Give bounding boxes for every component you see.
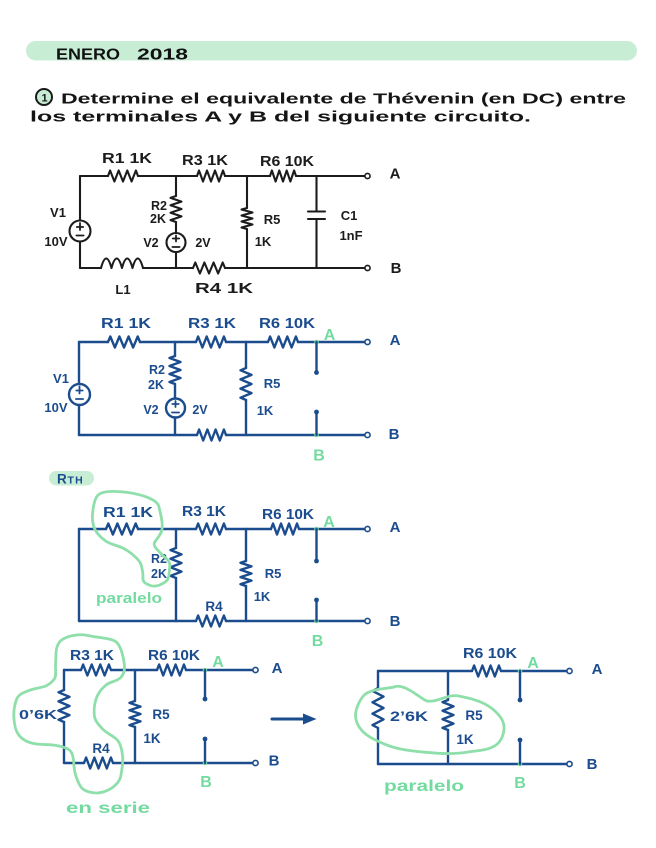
resistor R3 (c3) [196,524,226,535]
label R2 (c2) [149,363,165,377]
terminal A (c4) [253,667,258,672]
svg-text:2’6K: 2’6K [390,709,428,724]
svg-text:B: B [391,260,402,277]
capacitor C1 branch wire upper [315,176,317,211]
label L1 [115,282,130,297]
Rth label [57,472,84,487]
svg-text:2018: 2018 [137,47,188,64]
green label A (c4) [212,654,224,671]
svg-text:R1 1K: R1 1K [103,505,154,521]
terminal A (c3) [365,526,370,531]
svg-text:B: B [390,613,401,630]
svg-text:1K: 1K [257,403,274,418]
wire R4 to terminal B (c2) [226,434,365,436]
question text line 2 [30,110,531,126]
terminal B [365,265,370,270]
wire R4 to terminal B (c3) [226,620,365,622]
stub from node A (c5) [518,671,523,702]
svg-text:R4: R4 [92,741,110,756]
node A green dot (c5) [518,669,523,674]
label 2V [195,236,211,250]
svg-text:R3 1K: R3 1K [182,153,229,169]
svg-text:A: A [390,519,401,536]
R5 branch wire upper [246,176,248,208]
label 1nF [339,228,362,243]
svg-text:V1: V1 [53,371,69,386]
svg-text:B: B [269,753,280,770]
svg-text:1nF: 1nF [339,228,362,243]
resistor R1 [108,171,138,182]
svg-text:C1: C1 [341,208,358,223]
wire V2 to bottom (c2) [174,418,176,436]
svg-text:V2: V2 [143,403,158,417]
label R5 [264,212,281,227]
svg-text:A: A [527,655,539,672]
svg-text:B: B [514,775,526,792]
label 2K (c3) [151,567,167,581]
terminal B (c5) [567,761,572,766]
svg-text:L1: L1 [115,282,130,297]
label R6 10K (c4) [148,648,201,664]
resistor R1 (c3) [106,524,138,535]
svg-text:0’6K: 0’6K [19,707,58,722]
wire bottom-left segment [80,267,101,269]
R2 branch wire (c3) [175,529,177,548]
svg-text:1K: 1K [143,731,161,746]
green text en serie [66,800,150,817]
R5 branch wire upper (c5) [447,671,449,700]
svg-text:los terminales A y B del sigui: los terminales A y B del siguiente circu… [30,110,531,126]
label V1 [50,205,66,220]
wire R2 to V2 (c2) [174,384,176,399]
voltage source V2 (c2) [166,399,185,418]
svg-text:R6 10K: R6 10K [262,507,315,523]
label 0'6K (c4) [19,707,58,722]
label R6 10K (c3) [262,507,315,523]
label 1K (R5) [255,234,272,249]
green label B (c2) [313,448,325,465]
wire R5 to bottom (c2) [245,400,247,435]
svg-text:R5: R5 [264,212,281,227]
label 2V (c2) [192,403,208,417]
label 1K (c2) [257,403,274,418]
wire bottom-left (c3) [79,620,196,622]
label R6 10K (c5) [463,646,518,662]
label R5 (c4) [152,707,170,722]
label R4 1K [195,281,254,297]
label A (c3) [390,519,401,536]
label R6 10K (c2) [259,316,316,332]
capacitor C1 [308,212,325,220]
terminal B (c3) [365,618,370,623]
label 2K [150,212,166,226]
stub from node B (c4) [203,737,208,763]
circuit 3: wire top-left segment [79,528,106,530]
node B green dot (c4) [203,761,208,766]
green label A (c2) [324,327,336,344]
left branch wire upper (c4) [63,670,65,690]
resistor R5 (c2) [241,368,252,400]
svg-text:R2: R2 [151,199,167,213]
svg-text:R6 10K: R6 10K [260,154,315,170]
resistor R3 [197,171,225,182]
wire R5 to bottom (c3) [245,586,247,621]
resistor 0.6K left branch (c4) [59,690,70,722]
resistor R4 (c4) [84,758,113,769]
label R5 (c3) [265,566,282,581]
arrow between circuits [272,714,317,725]
R5 branch wire upper (c2) [245,342,247,368]
green label A (c3) [323,514,335,531]
svg-text:Determine el equivalente de Th: Determine el equivalente de Thévenin (en… [61,92,626,108]
svg-text:R1 1K: R1 1K [102,151,153,167]
svg-text:2V: 2V [192,403,208,417]
R5 branch wire upper (c4) [134,670,136,701]
resistor R4 (c3) [196,616,226,627]
R2 branch wire from top [175,176,177,196]
resistor R5 (c5) [443,700,454,730]
svg-text:B: B [200,774,212,791]
svg-text:A: A [323,514,335,531]
wire R5 to bottom [246,229,248,268]
svg-text:A: A [272,660,283,677]
wire V1 to bottom [79,242,81,268]
green loop around R1 and R2 (paralelo) [92,491,169,586]
svg-text:A: A [212,654,224,671]
resistor R2 [171,196,182,222]
svg-text:2V: 2V [195,236,211,250]
voltage source V1 [70,221,91,242]
stub from node A (c4) [203,670,208,701]
svg-text:V2: V2 [143,236,158,250]
svg-text:B: B [389,426,400,443]
resistor R2 (c2) [170,356,181,384]
svg-text:2K: 2K [151,567,167,581]
svg-text:A: A [324,327,336,344]
resistor R2 (c3) [171,548,182,578]
label 1K (c5) [456,732,474,747]
label 10V [44,234,67,249]
circuit 5: wire top segment [378,670,472,672]
left branch wire upper (c5) [377,671,379,688]
resistor 2'6K (c5) [373,688,384,728]
label R2 [151,199,167,213]
circuit 1: wire top-left segment [80,175,108,177]
svg-text:2K: 2K [150,212,166,226]
label B [391,260,402,277]
stub from node B (c5) [518,738,523,764]
wire R1 to R3 (c3) [138,528,196,530]
svg-text:A: A [390,332,401,349]
svg-text:B: B [313,448,325,465]
terminal A [365,173,370,178]
wire R1 to R3 [138,175,197,177]
label R3 1K (c3) [182,504,227,520]
resistor R3 (c2) [196,337,226,348]
terminal A (c5) [567,668,572,673]
wire R6 to terminal A (c5) [501,670,567,672]
svg-text:paralelo: paralelo [384,778,464,795]
svg-text:R1 1K: R1 1K [101,316,152,332]
wire R5 to bottom (c4) [134,727,136,763]
wire L1 to R4 [143,267,193,269]
resistor R5 (c3) [241,561,252,586]
circuit 4: wire top-left segment [64,669,81,671]
svg-text:2K: 2K [148,378,164,392]
label B (c3) [390,613,401,630]
inductor L1 [101,259,143,269]
wire R6 to terminal A (c2) [298,341,365,343]
node A green dot (c2) [314,340,319,345]
wire V2 to bottom [175,252,177,268]
label V2 [143,236,158,250]
green text paralelo (c5) [384,778,464,795]
header title ENERO 2018 [56,47,188,64]
label V1 (c2) [53,371,69,386]
svg-text:10V: 10V [44,400,67,415]
wire V1 to bottom (c2) [78,405,80,435]
wire R6 to terminal A (c4) [186,669,253,671]
node A green dot (c4) [203,668,208,673]
label 10V (c2) [44,400,67,415]
label R4 (c4) [92,741,110,756]
left branch wire lower (c5) [377,728,379,764]
label R3 1K (c2) [188,316,237,332]
resistor R5 [242,208,253,229]
node A green dot (c3) [314,527,319,532]
wire R3 to R6 (c2) [226,341,268,343]
resistor R6 (c2) [268,337,298,348]
resistor R6 (c5) [472,666,501,677]
wire R2 to V2 [175,222,177,233]
terminal B (c4) [253,760,258,765]
label R6 10K [260,154,315,170]
stub from node B (c3) [314,598,319,621]
resistor R6 (c3) [271,524,299,535]
node B green dot (c3) [314,619,319,624]
svg-text:B: B [587,756,598,773]
label A (c5) [592,661,603,678]
label V2 (c2) [143,403,158,417]
label R4 (c3) [205,599,223,614]
svg-text:1K: 1K [456,732,474,747]
label B (c2) [389,426,400,443]
label 2'6K (c5) [390,709,428,724]
voltage source V1 branch upper (c2) [78,342,80,384]
svg-text:R5: R5 [264,376,281,391]
label 1K (c3) [254,589,271,604]
label B (c5) [587,756,598,773]
Rth pill highlight [49,471,94,486]
resistor R4 [193,263,225,274]
terminal A (c2) [365,339,370,344]
wire C1 to bottom [315,220,317,269]
wire bottom (c5) [378,763,567,765]
stub from node B (c2) [314,410,319,435]
svg-text:R6 10K: R6 10K [148,648,201,664]
circuit 2: wire top-left segment [79,341,108,343]
label R1 1K [102,151,153,167]
label B (c4) [269,753,280,770]
svg-text:R6 10K: R6 10K [463,646,518,662]
svg-text:R: R [57,472,67,487]
label A [390,166,401,183]
svg-text:R4 1K: R4 1K [195,281,254,297]
svg-text:V1: V1 [50,205,66,220]
R2 branch wire (c2) [174,342,176,356]
svg-text:ENERO: ENERO [56,47,120,64]
svg-text:1K: 1K [255,234,272,249]
svg-text:R2: R2 [149,363,165,377]
svg-text:R3 1K: R3 1K [182,504,227,520]
svg-text:B: B [312,633,324,650]
wire bottom-left (c4) [64,762,84,764]
svg-text:en serie: en serie [66,800,150,817]
svg-text:R5: R5 [265,566,282,581]
svg-text:paralelo: paralelo [96,590,162,607]
svg-text:R5: R5 [465,708,483,723]
svg-text:R4: R4 [205,599,223,614]
label 2K (c2) [148,378,164,392]
wire R5 to bottom (c5) [447,730,449,764]
wire bottom-left (c2) [79,434,197,436]
wire R1 to R3 (c2) [140,341,196,343]
wire R3 to R6 (c3) [226,528,271,530]
wire R2 to bottom (c3) [175,578,177,621]
label A (c4) [272,660,283,677]
label R5 (c5) [465,708,483,723]
wire R4 to terminal B [225,267,365,269]
question text line 1 [61,92,626,108]
label R1 1K (c2) [101,316,152,332]
svg-text:10V: 10V [44,234,67,249]
label R3 1K [182,153,229,169]
svg-text:1K: 1K [254,589,271,604]
resistor R3 (c4) [81,665,111,676]
label C1 [341,208,358,223]
question number badge 1 [36,89,52,105]
resistor R6 [270,171,296,182]
green label A (c5) [527,655,539,672]
voltage source V1 (c2) [69,384,90,405]
green label B (c3) [312,633,324,650]
label 1K (c4) [143,731,161,746]
wire R4 to terminal B (c4) [113,762,253,764]
green label B (c4) [200,774,212,791]
wire R3 to R6 [225,175,270,177]
node B green dot (c2) [314,433,319,438]
voltage source V1 branch wire upper [79,176,81,221]
header highlight bar [26,41,637,61]
resistor R6 (c4) [157,665,186,676]
wire R6 to terminal A (c3) [299,528,365,530]
svg-text:1: 1 [41,93,47,105]
stub from node A (c3) [314,529,319,563]
green loop around 2.6K and R5 (paralelo) [356,686,504,753]
label R5 (c2) [264,376,281,391]
node B green dot (c5) [518,762,523,767]
resistor R5 (c4) [130,701,141,727]
svg-text:A: A [390,166,401,183]
resistor R4 (c2) [197,430,226,441]
wire R3 to R6 (c4) [111,669,157,671]
label R3 1K (c4) [70,648,115,664]
voltage source V2 [167,233,186,252]
wire R6 to terminal A [296,175,365,177]
label R1 1K (c3) [103,505,154,521]
svg-text:R5: R5 [152,707,170,722]
svg-text:R6 10K: R6 10K [259,316,316,332]
svg-text:R3 1K: R3 1K [188,316,237,332]
R5 branch wire upper (c3) [245,529,247,561]
label A (c2) [390,332,401,349]
green loop around R3 0.6K R4 (en serie) [14,635,125,793]
svg-text:TH: TH [68,475,84,487]
terminal B (c2) [365,432,370,437]
left branch wire lower (c4) [63,722,65,763]
stub from node A (c2) [314,342,319,375]
green label B (c5) [514,775,526,792]
label R2 (c3) [151,552,167,566]
green text paralelo (c3) [96,590,162,607]
resistor R1 (c2) [108,337,140,348]
left branch wire (c3) [78,529,80,621]
svg-text:R3 1K: R3 1K [70,648,115,664]
svg-text:A: A [592,661,603,678]
